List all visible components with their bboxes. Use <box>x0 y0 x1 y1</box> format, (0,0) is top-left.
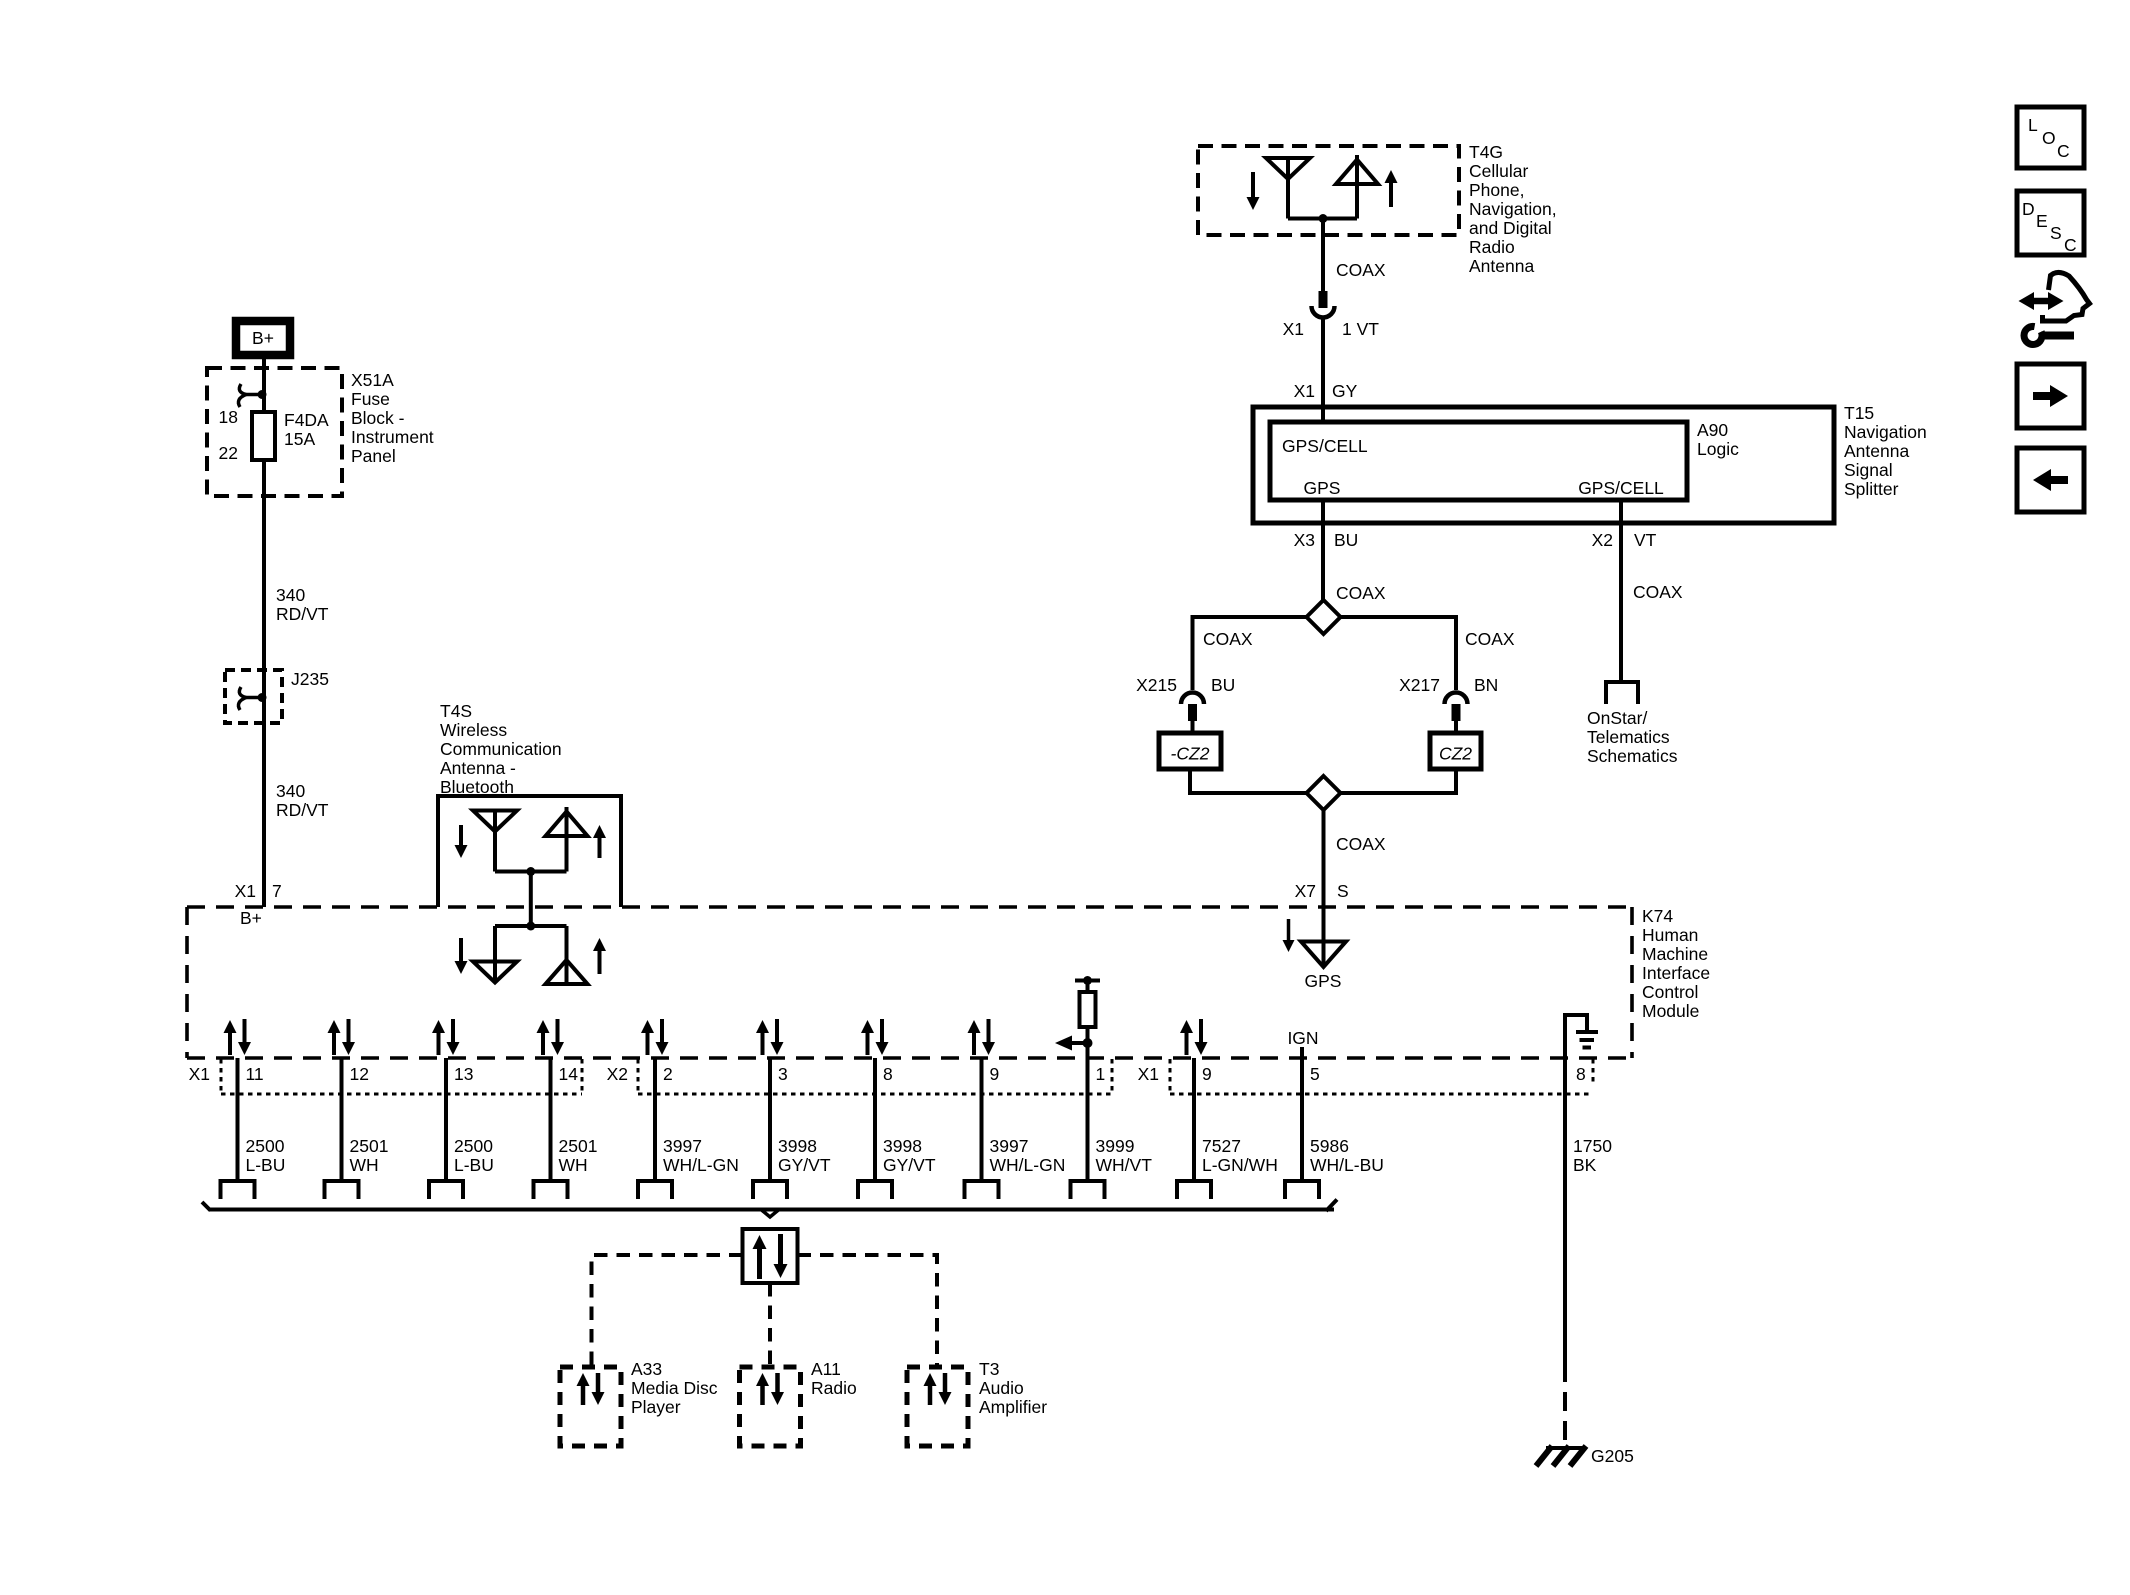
svg-text:7527: 7527 <box>1202 1136 1241 1156</box>
svg-text:COAX: COAX <box>1465 629 1515 649</box>
T4G left antenna element <box>1266 158 1310 219</box>
signal arrows pin 3 <box>756 1019 784 1055</box>
svg-text:1750: 1750 <box>1573 1136 1612 1156</box>
svg-text:2501: 2501 <box>350 1136 389 1156</box>
svg-text:T3: T3 <box>979 1359 999 1379</box>
wire right COAX branch <box>1341 617 1457 690</box>
label T4G Cellular Phone Navigation and Digital Radio Antenna <box>1469 142 1557 276</box>
svg-text:8: 8 <box>883 1064 893 1084</box>
svg-text:COAX: COAX <box>1336 260 1386 280</box>
label K74 Human Machine Interface Control Module <box>1642 906 1710 1021</box>
dashed link to A11 <box>768 1283 772 1367</box>
label J235 <box>291 669 329 689</box>
wire 340 RD/VT upper segment <box>262 496 266 723</box>
mute control left arrow <box>1055 1036 1088 1051</box>
pin 12 wire 2501 WH <box>325 1058 389 1199</box>
svg-text:VT: VT <box>1634 530 1657 550</box>
fuse F4DA 15A body <box>252 412 275 460</box>
svg-text:C: C <box>2064 235 2077 255</box>
signal arrows pin 14 <box>537 1019 565 1055</box>
svg-text:X3: X3 <box>1294 530 1315 550</box>
wire CZ2 to bottom diamond <box>1341 769 1457 793</box>
label COAX T4G <box>1336 260 1386 280</box>
dashed link to A33 <box>592 1255 743 1367</box>
svg-text:Navigation: Navigation <box>1844 422 1927 442</box>
connector designator labels <box>189 1064 1159 1084</box>
label COAX X3 <box>1336 583 1386 603</box>
pin labels X7 S <box>1295 881 1349 901</box>
svg-text:Antenna -: Antenna - <box>440 758 516 778</box>
label COAX right <box>1465 629 1515 649</box>
connector CZ2 box <box>1430 733 1481 769</box>
svg-text:Audio: Audio <box>979 1378 1024 1398</box>
svg-text:11: 11 <box>246 1064 264 1084</box>
label A11 Radio <box>811 1359 857 1398</box>
icon forward arrow box <box>2017 364 2084 428</box>
svg-text:9: 9 <box>1202 1064 1212 1084</box>
svg-text:Telematics: Telematics <box>1587 727 1670 747</box>
pin labels X217 BN <box>1399 675 1498 695</box>
svg-text:WH/L-BU: WH/L-BU <box>1310 1155 1384 1175</box>
fuse clip pin 18 <box>238 384 266 407</box>
coax connector X217 <box>1445 693 1468 734</box>
wire 340 RD/VT lower segment <box>262 723 266 907</box>
T4S transmit up arrow <box>593 825 606 858</box>
pin labels X215 BU <box>1136 675 1235 695</box>
icon LOC box <box>2017 107 2084 168</box>
svg-text:-CZ2: -CZ2 <box>1171 744 1210 764</box>
svg-text:12: 12 <box>350 1064 369 1084</box>
wire X2 VT from splitter <box>1619 500 1623 682</box>
pin labels X2 VT <box>1592 530 1657 550</box>
antenna T4S box outline <box>438 796 621 907</box>
svg-text:T4S: T4S <box>440 701 472 721</box>
pin label GPS output <box>1304 478 1341 498</box>
pin 8 label right <box>1576 1064 1586 1084</box>
svg-text:D: D <box>2022 199 2035 219</box>
svg-text:8: 8 <box>1576 1064 1586 1084</box>
svg-text:3997: 3997 <box>663 1136 702 1156</box>
label COAX left <box>1203 629 1253 649</box>
pin 2 wire 3997 WH/L-GN <box>638 1058 739 1199</box>
coax connector X215 <box>1181 693 1204 734</box>
svg-text:Instrument: Instrument <box>351 427 434 447</box>
label COAX X2 <box>1633 582 1683 602</box>
svg-text:WH: WH <box>559 1155 588 1175</box>
svg-text:E: E <box>2036 211 2048 231</box>
svg-text:5: 5 <box>1310 1064 1320 1084</box>
label OnStar/Telematics Schematics <box>1587 708 1678 766</box>
svg-text:A11: A11 <box>811 1359 841 1379</box>
svg-text:COAX: COAX <box>1633 582 1683 602</box>
svg-text:Player: Player <box>631 1397 681 1417</box>
svg-text:IGN: IGN <box>1287 1028 1318 1048</box>
wire COAX from T4G <box>1321 219 1325 293</box>
svg-text:T15: T15 <box>1844 403 1874 423</box>
wire T4S feed into K74 <box>529 872 533 927</box>
svg-text:B+: B+ <box>252 328 274 348</box>
net label B+ inside K74 <box>240 908 262 928</box>
dashed link to T3 <box>798 1255 938 1367</box>
svg-text:Human: Human <box>1642 925 1698 945</box>
svg-text:J235: J235 <box>291 669 329 689</box>
svg-text:F4DA: F4DA <box>284 410 329 430</box>
svg-text:Splitter: Splitter <box>1844 479 1899 499</box>
svg-text:A90: A90 <box>1697 420 1728 440</box>
label X51A Fuse Block - Instrument Panel <box>351 370 434 466</box>
module T3 dashed outline <box>907 1367 968 1446</box>
svg-text:Navigation,: Navigation, <box>1469 199 1557 219</box>
wire COAX to X7 <box>1322 810 1326 941</box>
svg-text:BU: BU <box>1211 675 1235 695</box>
svg-text:GPS: GPS <box>1305 971 1342 991</box>
svg-text:Panel: Panel <box>351 446 396 466</box>
connector face dotted outline 1 <box>221 1059 582 1094</box>
svg-text:COAX: COAX <box>1336 583 1386 603</box>
svg-text:2500: 2500 <box>454 1136 493 1156</box>
svg-text:L-BU: L-BU <box>454 1155 494 1175</box>
svg-text:B+: B+ <box>240 908 262 928</box>
svg-text:Radio: Radio <box>1469 237 1515 257</box>
label wire 340 RD/VT upper <box>276 585 329 624</box>
pin 3 wire 3998 GY/VT <box>753 1058 831 1199</box>
pin labels X1 1 VT <box>1283 319 1380 339</box>
signal arrows pin 2 <box>641 1019 669 1055</box>
svg-text:X1: X1 <box>235 881 256 901</box>
svg-text:Antenna: Antenna <box>1844 441 1909 461</box>
svg-text:S: S <box>2050 223 2062 243</box>
svg-text:K74: K74 <box>1642 906 1673 926</box>
svg-text:1: 1 <box>1096 1064 1106 1084</box>
svg-text:14: 14 <box>559 1064 579 1084</box>
svg-text:15A: 15A <box>284 429 315 449</box>
net label GPS <box>1305 971 1342 991</box>
svg-text:WH/VT: WH/VT <box>1096 1155 1153 1175</box>
signal arrows pin 13 <box>432 1019 460 1055</box>
svg-text:Control: Control <box>1642 982 1698 1002</box>
pin 1 wire 3999 WH/VT <box>1071 1058 1153 1199</box>
label G205 <box>1591 1446 1634 1466</box>
label A33 Media Disc Player <box>631 1359 718 1417</box>
ground symbol internal pin 8 <box>1565 1015 1598 1058</box>
svg-text:X1: X1 <box>1294 381 1315 401</box>
svg-text:OnStar/: OnStar/ <box>1587 708 1647 728</box>
svg-text:1 VT: 1 VT <box>1342 319 1379 339</box>
label T4S Wireless Communication Antenna - Bluetooth <box>440 701 562 797</box>
svg-text:GPS/CELL: GPS/CELL <box>1578 478 1664 498</box>
svg-text:7: 7 <box>272 881 282 901</box>
svg-text:3998: 3998 <box>778 1136 817 1156</box>
svg-text:X1: X1 <box>1138 1064 1159 1084</box>
splitter T15 outer box <box>1253 407 1834 523</box>
svg-text:Module: Module <box>1642 1001 1699 1021</box>
pin labels X1 GY <box>1294 381 1358 401</box>
svg-text:COAX: COAX <box>1336 834 1386 854</box>
svg-text:COAX: COAX <box>1203 629 1253 649</box>
coax connector X1 plug <box>1312 291 1335 318</box>
svg-text:2: 2 <box>663 1064 673 1084</box>
svg-text:2501: 2501 <box>559 1136 598 1156</box>
svg-text:9: 9 <box>990 1064 1000 1084</box>
module A33 dashed outline <box>560 1367 621 1446</box>
svg-text:3: 3 <box>778 1064 788 1084</box>
svg-text:Wireless: Wireless <box>440 720 507 740</box>
svg-text:18: 18 <box>219 407 238 427</box>
T4S right antenna element <box>546 807 588 872</box>
signal arrows pin 9 <box>968 1019 996 1055</box>
svg-text:L-GN/WH: L-GN/WH <box>1202 1155 1278 1175</box>
label COAX X7 <box>1336 834 1386 854</box>
svg-text:Block -: Block - <box>351 408 405 428</box>
pin labels X3 BU <box>1294 530 1359 550</box>
net label IGN <box>1287 1028 1318 1048</box>
svg-text:GPS/CELL: GPS/CELL <box>1282 436 1368 456</box>
K74 internal transmit up arrow <box>593 938 606 974</box>
logic block A90 inner box <box>1270 422 1687 500</box>
label wire 340 RD/VT lower <box>276 781 329 820</box>
wire X3 BU from splitter <box>1321 500 1325 600</box>
T4S left antenna element <box>473 811 517 872</box>
pin 9 X1 wire 7527 L-GN/WH <box>1177 1058 1278 1199</box>
svg-text:X7: X7 <box>1295 881 1316 901</box>
svg-text:T4G: T4G <box>1469 142 1503 162</box>
svg-text:340: 340 <box>276 585 305 605</box>
signal arrows pin 9 X1 <box>1180 1019 1208 1055</box>
module A11 dashed outline <box>740 1367 801 1446</box>
GPS receive down arrow <box>1283 919 1295 952</box>
pin 13 wire 2500 L-BU <box>429 1058 494 1199</box>
T4S receive down arrow <box>455 825 468 858</box>
svg-text:Fuse: Fuse <box>351 389 390 409</box>
power symbol B+ battery feed <box>236 321 290 355</box>
svg-text:2500: 2500 <box>246 1136 285 1156</box>
svg-text:X51A: X51A <box>351 370 394 390</box>
signal arrows pin 11 <box>224 1019 252 1055</box>
svg-text:X1: X1 <box>189 1064 210 1084</box>
svg-text:Phone,: Phone, <box>1469 180 1524 200</box>
svg-text:G205: G205 <box>1591 1446 1634 1466</box>
K74 internal receive down arrow <box>455 938 468 974</box>
icon DESC box <box>2017 191 2084 255</box>
svg-text:X215: X215 <box>1136 675 1177 695</box>
label F4DA 15A <box>284 410 329 449</box>
pin label GPS/CELL output <box>1578 478 1664 498</box>
connector face dotted outline 3 <box>1170 1059 1593 1094</box>
svg-text:GPS: GPS <box>1304 478 1341 498</box>
svg-text:Schematics: Schematics <box>1587 746 1678 766</box>
svg-text:RD/VT: RD/VT <box>276 604 329 624</box>
ground G205 symbol <box>1536 1446 1586 1466</box>
svg-text:Machine: Machine <box>1642 944 1708 964</box>
svg-text:L: L <box>2028 115 2038 135</box>
svg-text:Interface: Interface <box>1642 963 1710 983</box>
junction diamond top <box>1307 600 1341 634</box>
wire fuse to box edge <box>262 460 266 496</box>
svg-text:Antenna: Antenna <box>1469 256 1534 276</box>
svg-text:GY/VT: GY/VT <box>883 1155 936 1175</box>
T4G receive down arrow <box>1247 172 1260 210</box>
icon back arrow box <box>2017 448 2084 512</box>
off-page connector to OnStar <box>1606 682 1638 704</box>
wire X1 GY coax to splitter <box>1321 318 1325 424</box>
signal arrows pin 12 <box>328 1019 356 1055</box>
svg-text:C: C <box>2057 141 2070 161</box>
junction diamond bottom <box>1307 776 1341 810</box>
svg-text:340: 340 <box>276 781 305 801</box>
GPS antenna symbol <box>1301 941 1346 967</box>
T4G transmit up arrow <box>1385 170 1398 207</box>
svg-text:A33: A33 <box>631 1359 662 1379</box>
svg-text:5986: 5986 <box>1310 1136 1349 1156</box>
svg-text:RD/VT: RD/VT <box>276 800 329 820</box>
fuse block X51A dashed outline <box>207 368 342 496</box>
label T15 Navigation Antenna Signal Splitter <box>1844 403 1927 499</box>
wire -CZ2 to bottom diamond <box>1190 769 1307 793</box>
pin 5 wire 5986 WH/L-BU <box>1285 1058 1384 1199</box>
svg-text:X217: X217 <box>1399 675 1440 695</box>
svg-text:BN: BN <box>1474 675 1498 695</box>
svg-text:L-BU: L-BU <box>246 1155 286 1175</box>
pin label 18 <box>219 407 238 427</box>
splice J235 clip symbol <box>238 687 266 710</box>
svg-text:X1: X1 <box>1283 319 1304 339</box>
svg-text:Media Disc: Media Disc <box>631 1378 718 1398</box>
label A90 Logic <box>1697 420 1739 459</box>
svg-text:CZ2: CZ2 <box>1439 744 1472 764</box>
svg-text:3997: 3997 <box>990 1136 1029 1156</box>
svg-text:Logic: Logic <box>1697 439 1739 459</box>
T4G right antenna element <box>1336 155 1378 219</box>
pin labels X1 7 at K74 <box>235 881 282 901</box>
svg-text:Amplifier: Amplifier <box>979 1397 1047 1417</box>
svg-text:Radio: Radio <box>811 1378 857 1398</box>
svg-text:13: 13 <box>454 1064 473 1084</box>
svg-text:GY/VT: GY/VT <box>778 1155 831 1175</box>
T4G antenna feed junction <box>1288 214 1357 223</box>
svg-text:WH/L-GN: WH/L-GN <box>990 1155 1066 1175</box>
wire B+ into fuse block <box>262 359 266 412</box>
svg-text:BK: BK <box>1573 1155 1597 1175</box>
svg-text:Signal: Signal <box>1844 460 1893 480</box>
svg-text:X2: X2 <box>607 1064 628 1084</box>
antenna T4G dashed outline <box>1198 146 1459 235</box>
K74 internal antenna feed junction <box>495 922 567 931</box>
module K74 dashed outline <box>187 907 1632 1058</box>
pin 14 wire 2501 WH <box>534 1058 598 1199</box>
wire 1750 BK <box>1565 1058 1612 1447</box>
T4S antenna feed junction <box>495 867 567 876</box>
label T3 Audio Amplifier <box>979 1359 1047 1417</box>
svg-text:3999: 3999 <box>1096 1136 1135 1156</box>
pin 9 wire 3997 WH/L-GN <box>965 1058 1066 1199</box>
icon vehicle data link <box>2019 272 2090 344</box>
svg-text:X2: X2 <box>1592 530 1613 550</box>
svg-text:and Digital: and Digital <box>1469 218 1552 238</box>
svg-text:Communication: Communication <box>440 739 562 759</box>
bidirectional link box <box>743 1229 798 1283</box>
connector face dotted outline 2 <box>638 1059 1112 1094</box>
pin label 22 <box>219 443 238 463</box>
svg-text:Cellular: Cellular <box>1469 161 1528 181</box>
svg-text:WH: WH <box>350 1155 379 1175</box>
K74 internal right antenna element <box>546 926 588 984</box>
svg-text:O: O <box>2042 128 2056 148</box>
wire left COAX branch <box>1193 617 1307 690</box>
K74 internal left antenna element <box>473 926 517 983</box>
splice J235 dashed outline <box>225 670 282 723</box>
connector -CZ2 box <box>1159 733 1221 769</box>
svg-text:S: S <box>1337 881 1349 901</box>
pin 11 wire 2500 L-BU <box>221 1058 286 1199</box>
signal arrows pin 8 <box>861 1019 889 1055</box>
wire bundle bus line <box>202 1200 1337 1218</box>
svg-text:GY: GY <box>1332 381 1358 401</box>
svg-text:BU: BU <box>1334 530 1358 550</box>
svg-text:3998: 3998 <box>883 1136 922 1156</box>
pin 8 wire 3998 GY/VT <box>858 1058 936 1199</box>
resistor internal pin 1 <box>1075 976 1100 1058</box>
svg-text:WH/L-GN: WH/L-GN <box>663 1155 739 1175</box>
pin label GPS/CELL input <box>1282 436 1368 456</box>
svg-text:22: 22 <box>219 443 238 463</box>
IGN feed stub <box>1300 1047 1304 1058</box>
